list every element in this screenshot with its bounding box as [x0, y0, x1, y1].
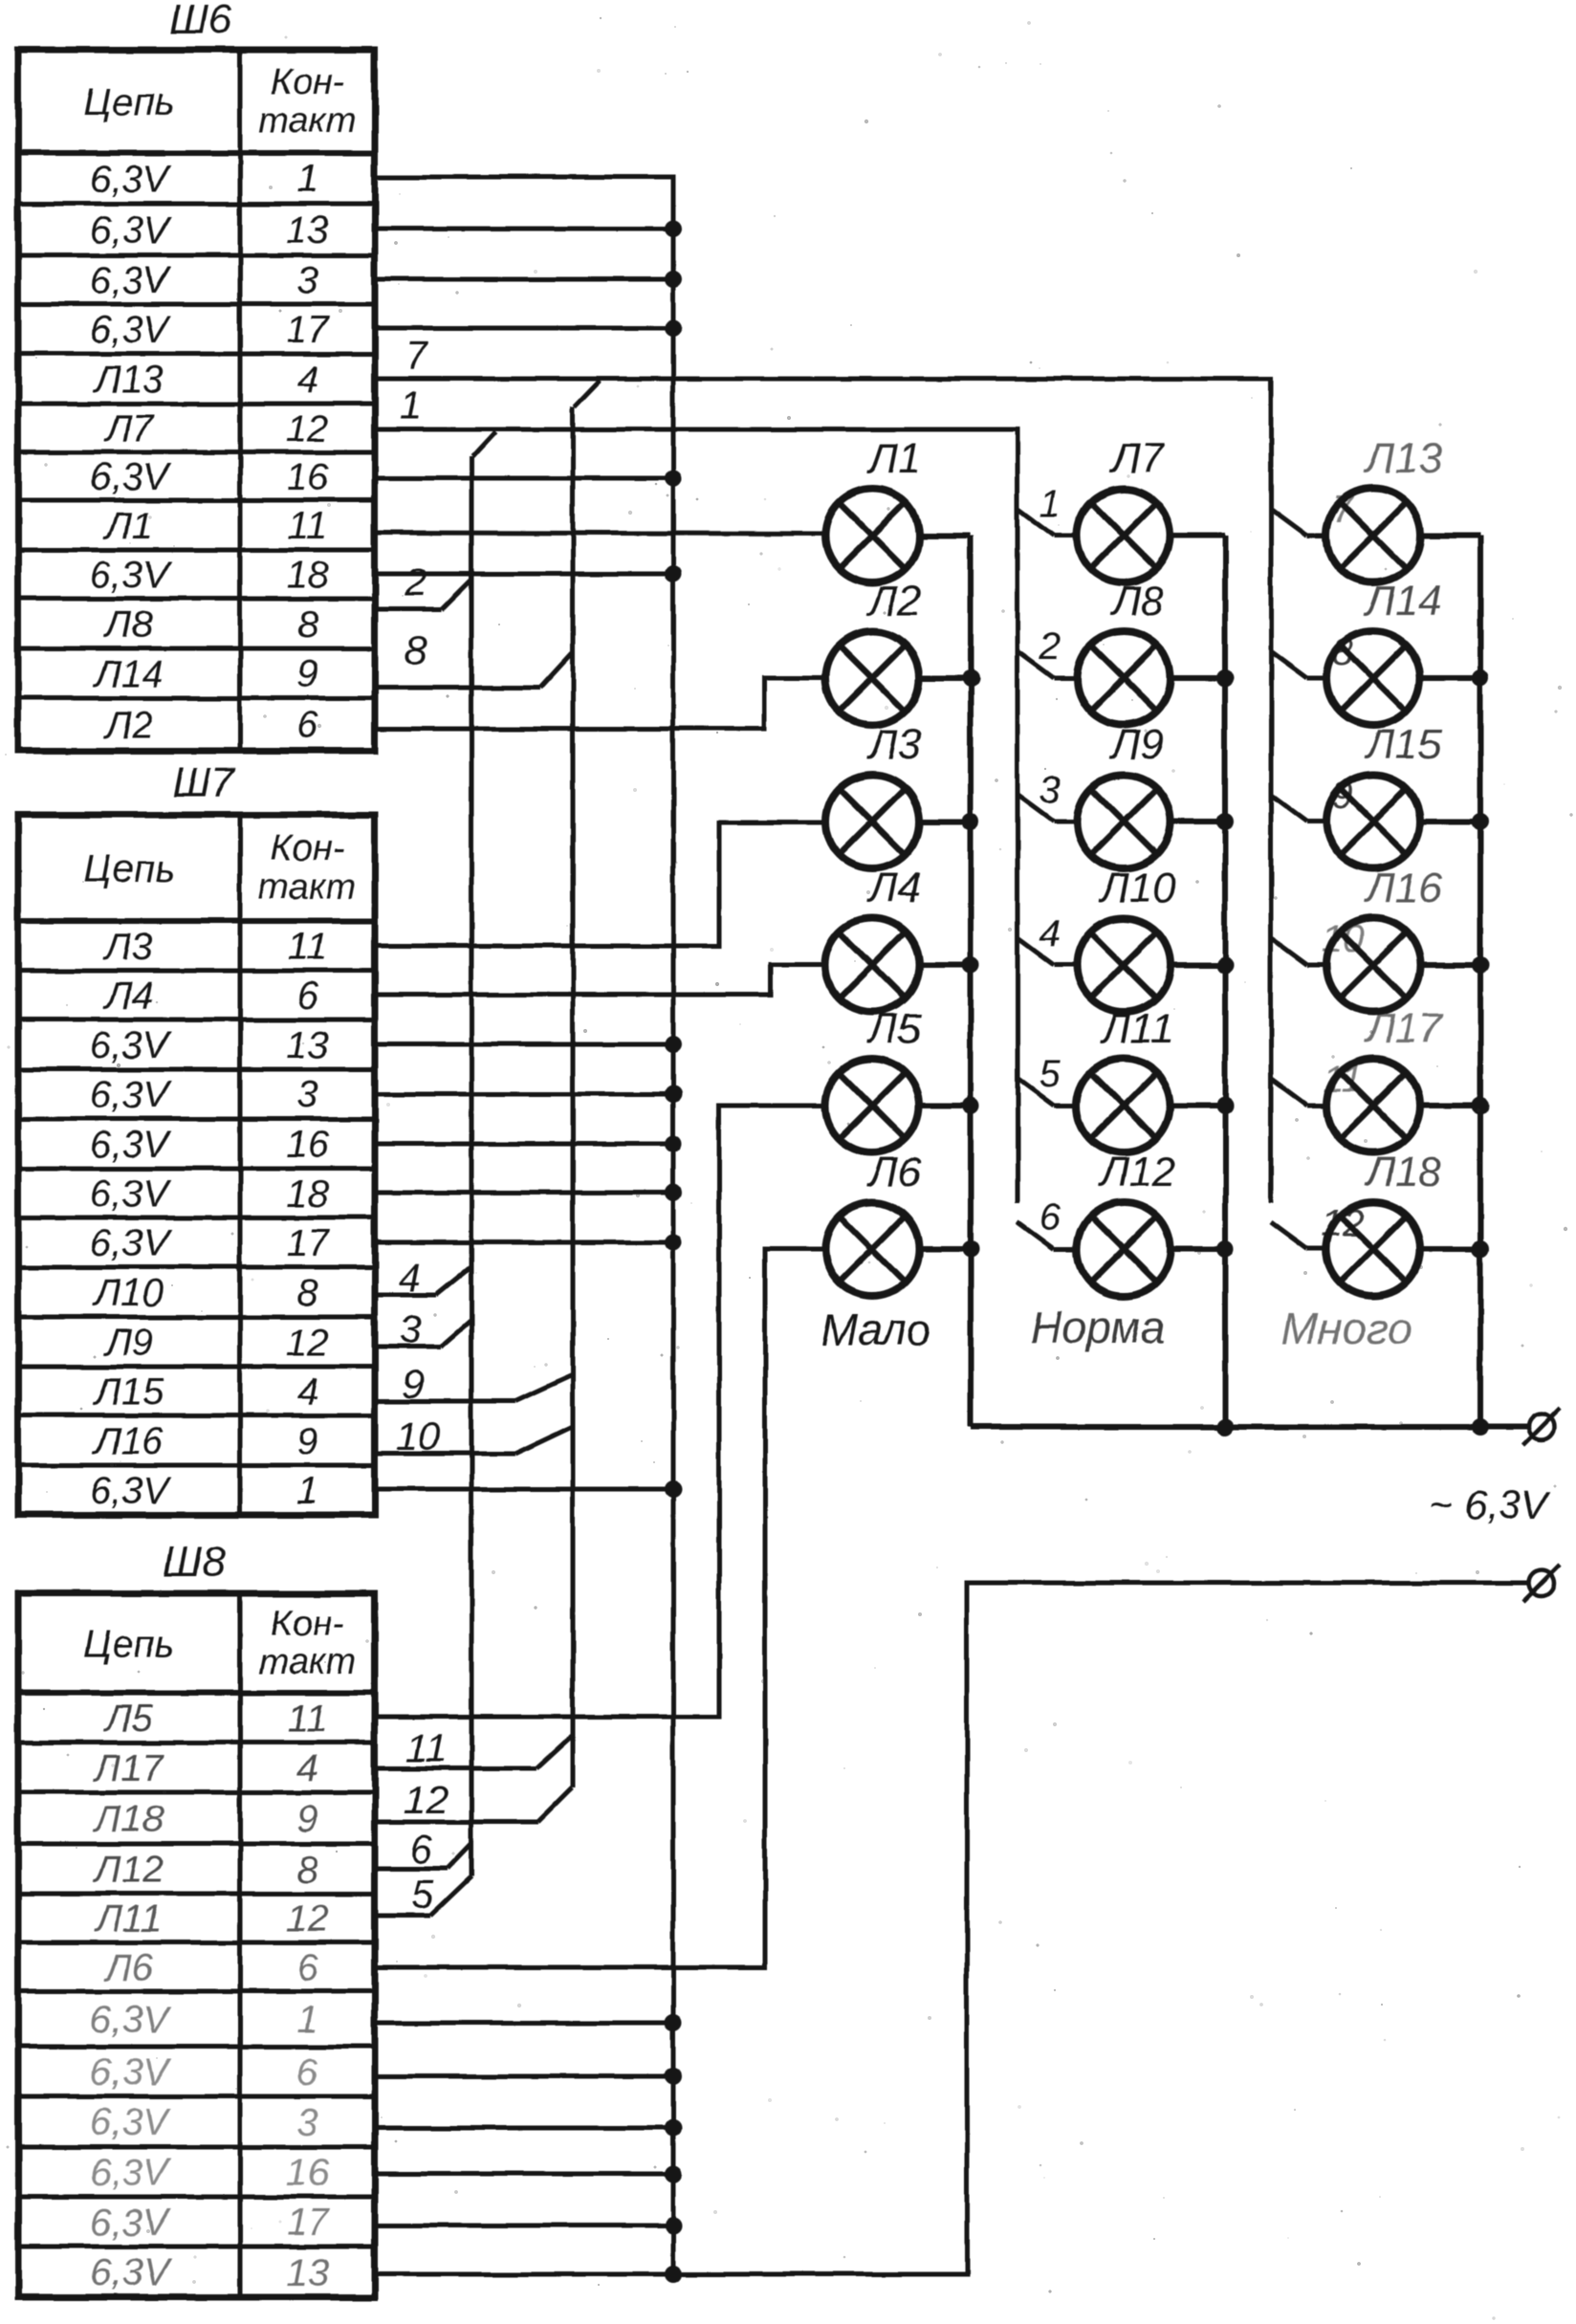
svg-text:6: 6: [296, 705, 318, 747]
svg-text:3: 3: [399, 1306, 421, 1351]
svg-text:6,3V: 6,3V: [1465, 1482, 1551, 1527]
svg-text:8: 8: [296, 1272, 318, 1314]
svg-text:Много: Много: [1281, 1304, 1412, 1353]
svg-text:Цепь: Цепь: [83, 848, 174, 890]
svg-text:Л5: Л5: [866, 1005, 922, 1052]
svg-text:Мало: Мало: [821, 1305, 930, 1354]
svg-text:~: ~: [1430, 1482, 1454, 1527]
svg-text:11: 11: [288, 926, 328, 968]
svg-text:Л7: Л7: [1109, 435, 1166, 482]
svg-text:Ш8: Ш8: [164, 1539, 226, 1586]
svg-text:Л4: Л4: [102, 976, 153, 1018]
svg-text:12: 12: [286, 1898, 329, 1940]
svg-text:1: 1: [399, 383, 421, 428]
svg-text:4: 4: [1040, 912, 1061, 954]
svg-text:11: 11: [288, 505, 328, 547]
svg-text:12: 12: [1322, 1202, 1365, 1244]
svg-text:Л7: Л7: [102, 408, 154, 450]
svg-text:8: 8: [296, 603, 318, 646]
svg-text:Л2: Л2: [102, 705, 153, 747]
svg-text:6,3V: 6,3V: [90, 1173, 172, 1216]
svg-text:6: 6: [409, 1827, 432, 1872]
svg-text:6,3V: 6,3V: [90, 1222, 172, 1264]
svg-text:3: 3: [296, 1074, 317, 1116]
svg-text:4: 4: [398, 1255, 420, 1300]
svg-text:6,3V: 6,3V: [90, 159, 172, 201]
svg-text:6,3V: 6,3V: [90, 1124, 172, 1166]
svg-text:1: 1: [296, 159, 317, 201]
svg-text:Л13: Л13: [1363, 435, 1442, 482]
svg-text:Л1: Л1: [866, 435, 922, 482]
svg-text:6,3V: 6,3V: [90, 209, 172, 252]
svg-text:16: 16: [286, 2152, 329, 2194]
svg-text:Л17: Л17: [92, 1747, 165, 1789]
svg-text:12: 12: [286, 408, 329, 450]
svg-text:Кон-: Кон-: [271, 62, 344, 102]
svg-text:9: 9: [296, 1798, 317, 1840]
svg-text:9: 9: [402, 1361, 424, 1406]
svg-text:Л3: Л3: [866, 721, 922, 768]
svg-text:Л14: Л14: [1363, 578, 1441, 625]
svg-text:6,3V: 6,3V: [90, 1024, 172, 1066]
svg-text:12: 12: [404, 1777, 449, 1822]
svg-text:16: 16: [286, 456, 329, 498]
svg-text:Л8: Л8: [102, 603, 153, 646]
svg-text:Л9: Л9: [102, 1322, 153, 1364]
svg-text:Л8: Л8: [1109, 578, 1165, 625]
svg-text:13: 13: [286, 1024, 329, 1066]
svg-text:6,3V: 6,3V: [90, 1999, 172, 2041]
svg-text:6,3V: 6,3V: [90, 260, 172, 302]
svg-text:6,3V: 6,3V: [90, 1074, 172, 1116]
svg-text:4: 4: [296, 359, 317, 401]
svg-text:Кон-: Кон-: [271, 1604, 344, 1644]
svg-text:6: 6: [1040, 1196, 1062, 1239]
svg-text:17: 17: [286, 2202, 330, 2244]
svg-text:Цепь: Цепь: [83, 81, 174, 123]
svg-text:Л12: Л12: [92, 1849, 164, 1891]
svg-text:6: 6: [296, 1947, 318, 1989]
svg-text:12: 12: [286, 1322, 329, 1364]
svg-text:10: 10: [396, 1414, 441, 1458]
svg-text:Л4: Л4: [866, 865, 922, 911]
svg-text:6,3V: 6,3V: [90, 2102, 172, 2144]
svg-text:Л11: Л11: [1099, 1005, 1174, 1052]
svg-text:такт: такт: [258, 1642, 356, 1682]
svg-text:6: 6: [296, 976, 318, 1018]
svg-text:13: 13: [286, 2252, 329, 2294]
svg-text:Л5: Л5: [102, 1698, 153, 1740]
svg-text:6,3V: 6,3V: [90, 2051, 172, 2094]
svg-text:1: 1: [1040, 483, 1061, 525]
svg-text:4: 4: [296, 1371, 317, 1414]
svg-text:Л18: Л18: [1363, 1149, 1442, 1195]
svg-text:Л10: Л10: [92, 1272, 164, 1314]
svg-text:Ш7: Ш7: [173, 759, 236, 806]
svg-text:10: 10: [1322, 918, 1365, 960]
svg-text:13: 13: [286, 209, 329, 252]
svg-text:6: 6: [296, 2051, 318, 2094]
svg-text:17: 17: [286, 309, 330, 351]
svg-text:17: 17: [286, 1222, 330, 1264]
svg-text:8: 8: [296, 1849, 318, 1891]
svg-text:Л12: Л12: [1097, 1149, 1175, 1195]
svg-text:9: 9: [1332, 775, 1353, 817]
svg-text:1: 1: [296, 1470, 317, 1512]
svg-text:Л11: Л11: [94, 1898, 163, 1940]
svg-text:такт: такт: [258, 867, 356, 908]
svg-text:6,3V: 6,3V: [90, 555, 172, 597]
svg-text:Л13: Л13: [92, 359, 164, 401]
svg-text:Л14: Л14: [92, 653, 164, 695]
svg-text:8: 8: [1332, 631, 1354, 673]
svg-text:Цепь: Цепь: [83, 1623, 174, 1665]
svg-text:11: 11: [405, 1725, 448, 1770]
svg-text:4: 4: [296, 1747, 317, 1789]
svg-text:18: 18: [286, 555, 329, 597]
svg-text:Л6: Л6: [102, 1947, 153, 1989]
svg-text:9: 9: [296, 653, 317, 695]
svg-text:Л15: Л15: [1363, 721, 1442, 768]
svg-text:Норма: Норма: [1031, 1303, 1166, 1352]
svg-text:8: 8: [405, 627, 427, 672]
svg-text:2: 2: [1039, 625, 1061, 668]
svg-text:3: 3: [296, 2102, 317, 2144]
svg-text:5: 5: [411, 1872, 434, 1917]
svg-text:6,3V: 6,3V: [90, 456, 172, 498]
svg-text:7: 7: [405, 333, 428, 378]
svg-text:3: 3: [1040, 769, 1061, 811]
svg-text:Л2: Л2: [866, 578, 922, 625]
svg-text:18: 18: [286, 1173, 329, 1216]
svg-text:11: 11: [288, 1698, 328, 1740]
svg-text:6,3V: 6,3V: [90, 2202, 172, 2244]
svg-text:3: 3: [296, 260, 317, 302]
svg-text:Л6: Л6: [866, 1149, 922, 1195]
svg-text:11: 11: [1323, 1059, 1363, 1101]
svg-text:1: 1: [296, 1999, 317, 2041]
svg-text:6,3V: 6,3V: [90, 309, 172, 351]
svg-text:16: 16: [286, 1124, 329, 1166]
svg-text:2: 2: [404, 559, 427, 604]
svg-text:Л9: Л9: [1109, 721, 1165, 768]
svg-text:9: 9: [296, 1420, 317, 1462]
svg-text:Кон-: Кон-: [271, 829, 344, 869]
svg-text:Л18: Л18: [92, 1798, 164, 1840]
svg-text:Л1: Л1: [102, 505, 153, 547]
svg-text:6,3V: 6,3V: [90, 1470, 172, 1512]
svg-text:Ш6: Ш6: [170, 0, 232, 43]
svg-text:Л10: Л10: [1097, 865, 1176, 911]
svg-text:Л16: Л16: [1363, 865, 1442, 911]
svg-text:5: 5: [1040, 1053, 1062, 1095]
svg-text:6,3V: 6,3V: [90, 2152, 172, 2194]
svg-text:7: 7: [1332, 489, 1355, 531]
svg-text:Л17: Л17: [1363, 1005, 1443, 1052]
svg-text:такт: такт: [258, 100, 356, 141]
svg-text:Л15: Л15: [92, 1371, 164, 1414]
svg-text:Л16: Л16: [92, 1420, 164, 1462]
svg-text:6,3V: 6,3V: [90, 2252, 172, 2294]
svg-text:Л3: Л3: [102, 926, 153, 968]
